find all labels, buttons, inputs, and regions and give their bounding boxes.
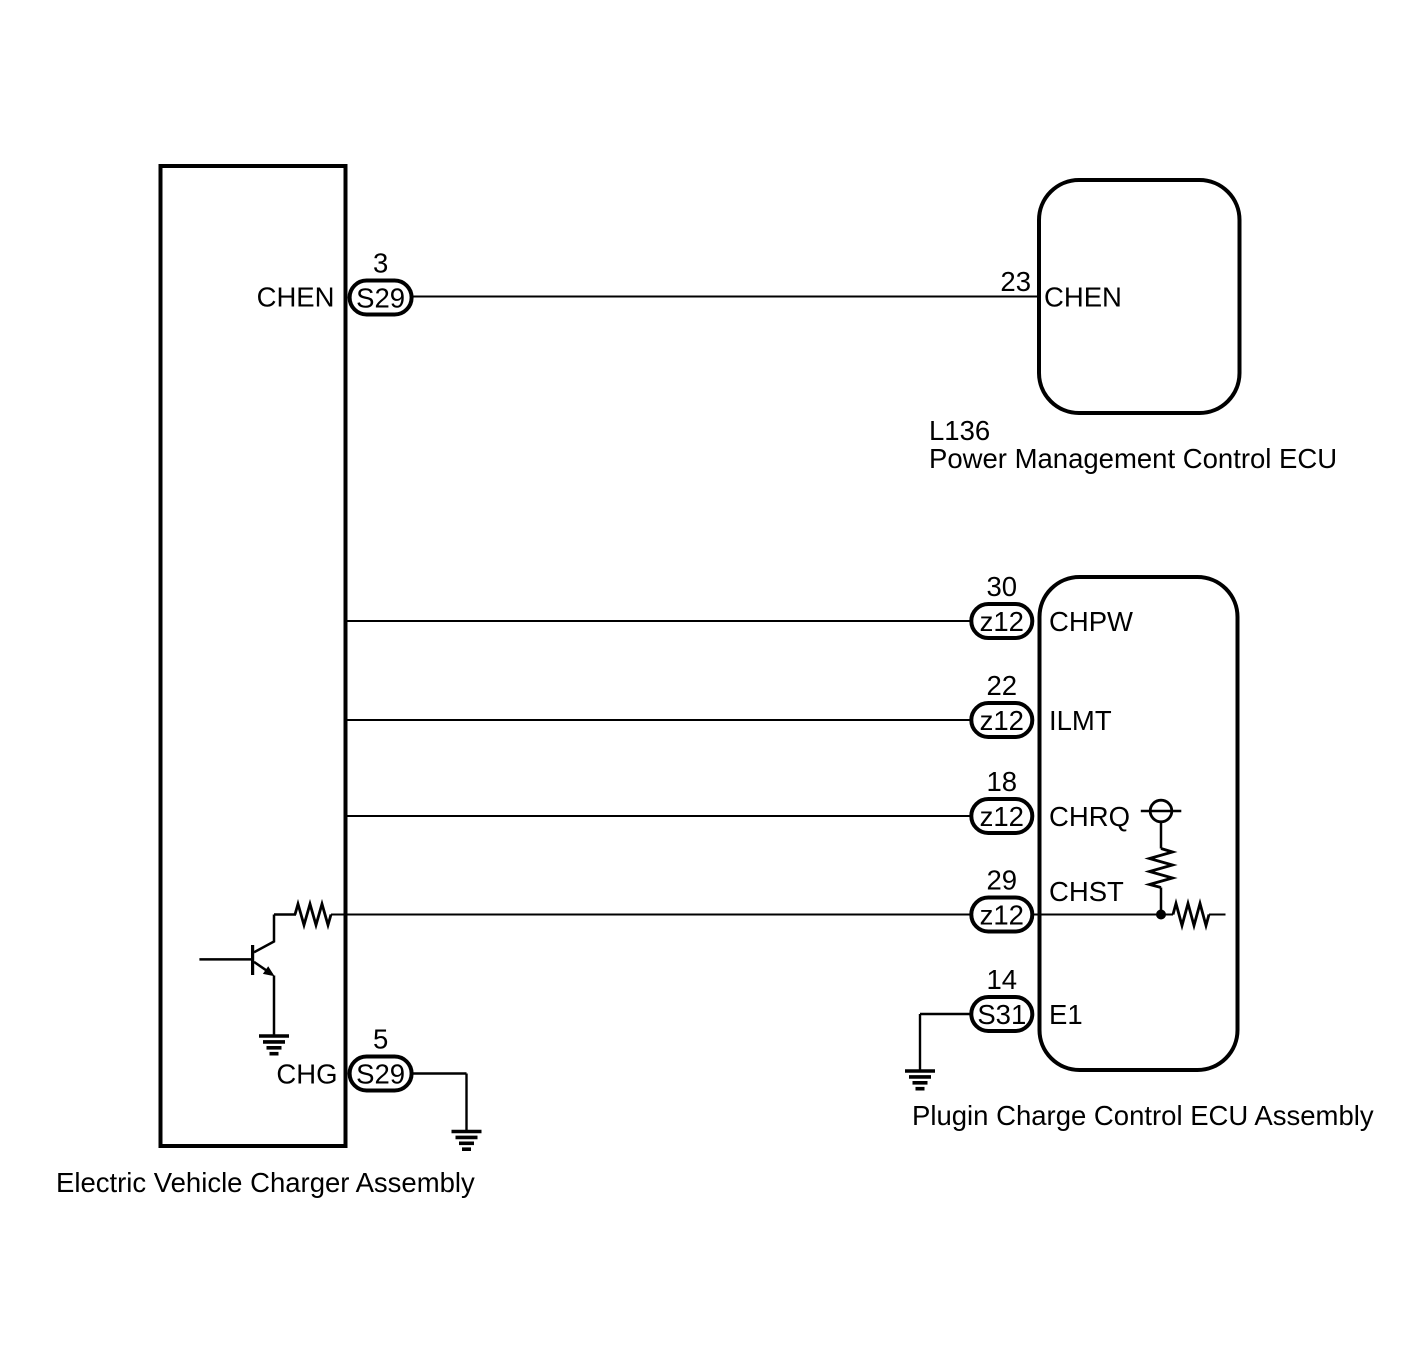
svg-text:CHG: CHG bbox=[276, 1059, 337, 1090]
pull-up resistor (vertical) bbox=[1150, 849, 1173, 888]
Electric Vehicle Charger Assembly box bbox=[161, 166, 346, 1146]
svg-text:E1: E1 bbox=[1049, 999, 1083, 1030]
wire resistor to CHST node bbox=[1160, 888, 1163, 915]
wire CHST inside ECU to junction and series resistor bbox=[1032, 914, 1173, 916]
wire CHG net to ground bbox=[412, 1072, 467, 1074]
svg-text:CHPW: CHPW bbox=[1049, 606, 1133, 637]
svg-text:Plugin Charge Control ECU Asse: Plugin Charge Control ECU Assembly bbox=[912, 1100, 1374, 1131]
svg-text:22: 22 bbox=[987, 670, 1018, 701]
svg-text:z12: z12 bbox=[980, 801, 1024, 832]
svg-text:CHRQ: CHRQ bbox=[1049, 801, 1130, 832]
svg-text:23: 23 bbox=[1000, 266, 1031, 297]
svg-text:30: 30 bbox=[987, 571, 1018, 602]
transistor Q1 base wire bbox=[199, 958, 254, 961]
ground symbol (E1) bbox=[905, 1071, 935, 1089]
svg-text:3: 3 bbox=[373, 248, 388, 279]
power supply symbol (circle with bar) bbox=[1150, 800, 1172, 822]
wire collector to resistor bbox=[274, 913, 296, 916]
wire CHEN net (S29 pin 3 to ECU pin 23) bbox=[412, 296, 1039, 298]
wire ILMT net bbox=[346, 719, 974, 721]
svg-text:z12: z12 bbox=[980, 606, 1024, 637]
wire CHRQ net bbox=[346, 815, 974, 817]
junction node on CHST line bbox=[1156, 910, 1166, 920]
transistor Q1 base bar bbox=[251, 945, 254, 975]
Plugin Charge Control ECU Assembly box bbox=[1040, 577, 1238, 1070]
svg-text:18: 18 bbox=[987, 766, 1018, 797]
wire emitter to ground bbox=[273, 976, 276, 1035]
ground symbol (CHG) bbox=[452, 1132, 482, 1150]
svg-text:ILMT: ILMT bbox=[1049, 705, 1112, 736]
connector oval z12 pin 29 bbox=[971, 898, 1032, 932]
connector oval z12 pin 30 bbox=[971, 604, 1032, 638]
svg-text:14: 14 bbox=[987, 964, 1018, 995]
wire down to ground (E1) bbox=[919, 1014, 921, 1070]
transistor Q1 collector bbox=[254, 915, 274, 953]
ground symbol (emitter) bbox=[259, 1036, 289, 1054]
transistor Q1 emitter arrowhead bbox=[263, 966, 275, 976]
svg-text:29: 29 bbox=[987, 865, 1018, 896]
svg-text:S29: S29 bbox=[356, 283, 405, 314]
connector oval S29 pin 3 bbox=[350, 281, 412, 315]
svg-text:Electric Vehicle Charger Assem: Electric Vehicle Charger Assembly bbox=[56, 1167, 475, 1198]
svg-text:CHST: CHST bbox=[1049, 876, 1124, 907]
svg-text:S29: S29 bbox=[356, 1059, 405, 1090]
wire E1 net (ground to S31 pin 14) bbox=[920, 1013, 973, 1015]
svg-text:z12: z12 bbox=[980, 705, 1024, 736]
connector oval z12 pin 22 bbox=[971, 703, 1032, 737]
svg-text:L136: L136 bbox=[929, 415, 990, 446]
svg-text:z12: z12 bbox=[980, 900, 1024, 931]
L136 Power Management Control ECU box bbox=[1039, 180, 1240, 413]
resistor in collector/CHST path (horizontal, left) bbox=[295, 904, 331, 925]
series resistor on CHST (horizontal, right) bbox=[1173, 904, 1209, 926]
svg-text:CHEN: CHEN bbox=[1044, 282, 1122, 313]
svg-text:5: 5 bbox=[373, 1024, 388, 1055]
connector oval S29 pin 5 bbox=[350, 1057, 412, 1091]
wire from supply to pull-up resistor bbox=[1160, 822, 1163, 849]
connector oval z12 pin 18 bbox=[971, 799, 1032, 833]
transistor Q1 emitter bbox=[254, 962, 272, 974]
connector oval S31 pin 14 bbox=[971, 997, 1032, 1031]
wire stub after series resistor bbox=[1209, 914, 1226, 916]
svg-text:Power Management Control ECU: Power Management Control ECU bbox=[929, 443, 1337, 474]
wire CHPW net bbox=[346, 620, 974, 622]
svg-text:CHEN: CHEN bbox=[257, 282, 335, 313]
svg-text:S31: S31 bbox=[977, 999, 1026, 1030]
wire CHST net (charger to z12 pin 29) bbox=[331, 914, 973, 916]
